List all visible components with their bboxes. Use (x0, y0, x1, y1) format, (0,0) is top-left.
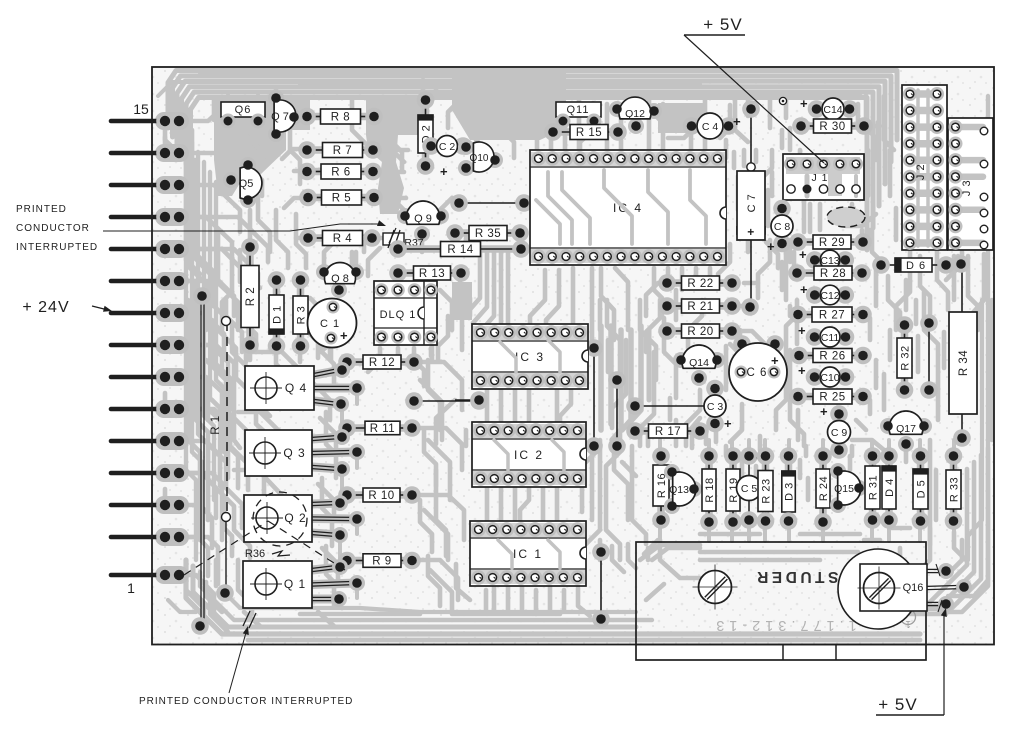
svg-text:C12: C12 (820, 290, 839, 302)
capacitor C12 (814, 291, 846, 299)
svg-text:C 6: C 6 (747, 367, 768, 379)
svg-text:DLQ 1: DLQ 1 (380, 309, 417, 321)
resistor R24 (819, 456, 827, 522)
wire link vertical B (616, 380, 618, 446)
diode D2 (422, 100, 430, 166)
capacitor C13 (814, 256, 846, 264)
svg-text:+: + (771, 353, 779, 368)
dense fill traces pass 3 (186, 132, 196, 560)
svg-text:IC 2: IC 2 (514, 448, 544, 462)
svg-text:C 1: C 1 (320, 318, 340, 330)
power transistor Q1 (312, 567, 340, 570)
svg-text:R 8: R 8 (331, 112, 350, 124)
svg-text:J 1: J 1 (811, 172, 828, 184)
svg-text:Q 7: Q 7 (271, 111, 289, 123)
svg-text:Q 9: Q 9 (414, 213, 432, 225)
interrupt marks below Q1 (243, 611, 250, 626)
svg-text:Q 4: Q 4 (285, 381, 307, 395)
svg-text:R 20: R 20 (687, 326, 713, 338)
resistor R7 (307, 146, 373, 154)
block screw (699, 571, 732, 604)
mid vertical bundle below IC4 left (466, 252, 480, 314)
svg-text:R 21: R 21 (687, 301, 713, 313)
copper patch in J1 (786, 158, 860, 196)
svg-text:Q11: Q11 (567, 104, 590, 116)
transistor Q12 (609, 101, 625, 117)
svg-text:R 6: R 6 (331, 167, 350, 179)
svg-text:R 4: R 4 (333, 233, 353, 245)
resistor R12 (347, 358, 414, 366)
svg-text:+: + (820, 404, 828, 419)
svg-text:R 15: R 15 (576, 127, 602, 139)
power transistor Q3 (312, 437, 342, 439)
svg-text:R 27: R 27 (819, 310, 845, 322)
wire link IC1 right (600, 552, 602, 619)
resistor R9 (347, 557, 412, 565)
resistor R31 (869, 456, 877, 520)
capacitor C9 (835, 414, 843, 451)
svg-text:15: 15 (133, 101, 149, 117)
svg-text:+: + (440, 164, 448, 179)
left mid fan diagonals (180, 249, 260, 288)
dashed construction lines (184, 521, 268, 575)
IC1 socket (470, 521, 586, 586)
svg-text:C11: C11 (821, 332, 840, 344)
svg-text:Q 2: Q 2 (284, 511, 306, 525)
dense fill traces pass 4 (738, 176, 748, 252)
svg-text:1: 1 (127, 580, 135, 596)
resistor R14 (398, 245, 521, 253)
traces around C6/Q14 (688, 300, 702, 348)
board outline (152, 67, 994, 645)
diode D3 (785, 456, 793, 521)
copper patch left of R8 (366, 100, 424, 214)
svg-text:D 1: D 1 (272, 305, 284, 324)
svg-text:R 11: R 11 (370, 423, 395, 435)
resistor R15 (553, 128, 618, 136)
copper patch top center (452, 68, 566, 140)
svg-text:R 10: R 10 (368, 490, 394, 502)
bottom row resistor stubs (658, 521, 662, 541)
dense fill traces pass 6: staircases (208, 300, 270, 416)
capacitor C7 (750, 109, 752, 166)
diode D1 (273, 280, 281, 346)
svg-text:IC 3: IC 3 (515, 350, 545, 364)
svg-text:+: + (767, 239, 775, 254)
capacitor C1 (308, 299, 357, 348)
svg-text:R 17: R 17 (655, 426, 681, 438)
svg-text:R 12: R 12 (369, 357, 395, 369)
connector J1 (783, 154, 864, 200)
wire link right (928, 323, 930, 390)
svg-text:PRINTED: PRINTED (16, 204, 67, 215)
resistor R18 (705, 456, 713, 522)
trimmer Q16 (838, 549, 918, 629)
D2/C2 area (421, 80, 426, 95)
svg-text:R 35: R 35 (475, 228, 501, 240)
resistor R20 (667, 327, 732, 335)
svg-text:Q14: Q14 (689, 357, 709, 369)
svg-text:C13: C13 (820, 255, 839, 267)
svg-text:C 8: C 8 (774, 221, 791, 233)
wire to C3 (635, 405, 704, 407)
resistor R22 (667, 279, 732, 287)
svg-text:Q15: Q15 (834, 483, 854, 495)
wire link near R12 (414, 400, 479, 402)
svg-text:+: + (799, 247, 807, 262)
svg-text:Q10: Q10 (470, 153, 489, 164)
svg-text:C 4: C 4 (702, 121, 719, 133)
svg-text:Q12: Q12 (625, 108, 645, 120)
copper patch near C4 (658, 103, 706, 133)
resistor R4 (308, 234, 372, 242)
transistor Q10 (458, 139, 474, 155)
diode D4 (885, 456, 893, 520)
svg-text:+: + (800, 282, 808, 297)
IC4 socket (530, 150, 726, 265)
resistor R21 (667, 302, 732, 310)
resistor R13 (398, 269, 461, 277)
transistor Q6 box (221, 102, 265, 117)
svg-text:Q5: Q5 (239, 178, 254, 190)
svg-text:CONDUCTOR: CONDUCTOR (16, 223, 90, 234)
traces upper-left fan (180, 108, 246, 121)
svg-text:R 29: R 29 (819, 237, 845, 249)
resistor R2 (246, 247, 254, 345)
copper patch near R13 (452, 282, 472, 320)
svg-text:+: + (747, 225, 755, 239)
tiny via ring near J1 (779, 97, 786, 104)
svg-text:R 25: R 25 (819, 392, 845, 404)
svg-text:C 2: C 2 (439, 141, 456, 153)
svg-text:Q17: Q17 (896, 423, 916, 435)
svg-text:J 3: J 3 (961, 180, 973, 196)
resistor R11 (347, 424, 412, 432)
resistor R32 (901, 325, 909, 390)
transistor Q11 box (556, 102, 601, 117)
verticals between IC4 and IC3 (530, 270, 545, 330)
transistor Q9 (397, 208, 413, 224)
svg-text:R 3: R 3 (296, 306, 308, 325)
resistor R10 (347, 491, 412, 499)
resistor R34 (961, 264, 963, 312)
svg-text:R 31: R 31 (868, 475, 880, 500)
diagonal weave left-center (246, 352, 330, 420)
top bundle feeders to IC4 (535, 100, 540, 158)
transistor Q5 (240, 157, 256, 173)
resistor R30 (801, 122, 864, 130)
diode D6 (881, 264, 895, 266)
resistor R26 (799, 352, 863, 360)
capacitor C6 (729, 343, 787, 401)
svg-text:+: + (733, 114, 741, 129)
svg-text:Q13: Q13 (669, 484, 689, 496)
svg-text:INTERRUPTED: INTERRUPTED (16, 242, 98, 253)
svg-text:R 26: R 26 (819, 351, 845, 363)
connector J2 (902, 85, 947, 250)
svg-text:R 2: R 2 (245, 287, 257, 306)
around R4..R8 right pads (374, 115, 396, 120)
svg-text:+ 5V: + 5V (878, 695, 917, 714)
power transistor Q2 (312, 503, 340, 504)
capacitor C2 (431, 142, 464, 150)
misc top-right feeders (788, 128, 793, 150)
resistor R8 (307, 113, 374, 121)
opto DLQ1 (374, 281, 437, 345)
svg-text:C 9: C 9 (831, 427, 848, 439)
long vertical jumper left (200, 296, 202, 625)
svg-text:Q 1: Q 1 (284, 577, 306, 591)
power transistor Q4 (314, 370, 342, 375)
svg-text:D 4: D 4 (884, 478, 896, 497)
svg-text:R 34: R 34 (958, 350, 970, 376)
lower-left nested corners + bottom bundle (186, 560, 920, 634)
R1 dashed outline (226, 322, 228, 516)
resistor R25 (798, 393, 863, 401)
svg-text:+: + (340, 328, 348, 343)
center tangle right of ICs (598, 300, 603, 330)
diode D5 (917, 456, 925, 521)
svg-text:IC 1: IC 1 (513, 547, 543, 561)
bottom right nested corners (940, 448, 988, 612)
svg-text:+: + (724, 416, 732, 431)
svg-text:1: 1 (905, 618, 911, 629)
svg-text:R 33: R 33 (949, 477, 961, 502)
capacitor C10 (814, 373, 846, 381)
svg-text:+ 24V: + 24V (22, 299, 69, 316)
traces between Q boxes and R9-R12 (320, 318, 338, 352)
svg-text:D 3: D 3 (784, 482, 796, 501)
svg-text:+ 5V: + 5V (703, 15, 742, 34)
capacitor C14 (816, 105, 850, 113)
resistor R23 (762, 456, 770, 521)
transistor Q8 (316, 264, 332, 280)
interrupt mark near R37 second (389, 228, 396, 243)
copper patch near Q6/Q7 (214, 98, 310, 196)
svg-text:PRINTED CONDUCTOR INTERRUPTE: PRINTED CONDUCTOR INTERRUPTED (139, 696, 353, 707)
dashed circle around Q2 (253, 492, 307, 546)
capacitor C8 (778, 208, 786, 244)
svg-text:R 28: R 28 (820, 268, 846, 280)
svg-text:C10: C10 (820, 372, 839, 384)
svg-text:R 14: R 14 (447, 244, 473, 256)
copper band center traces (598, 326, 604, 430)
dashed footprint ellipse (827, 207, 865, 227)
verticals IC1 down (492, 580, 497, 612)
svg-text:R 18: R 18 (704, 477, 716, 502)
resistor R6 (307, 168, 373, 176)
resistor R29 (798, 238, 863, 246)
svg-text:D 6: D 6 (906, 260, 926, 272)
svg-text:D 5: D 5 (916, 480, 928, 499)
svg-text:+: + (798, 323, 806, 338)
transistor Q13 (664, 464, 680, 480)
left connector rows (155, 112, 189, 130)
connector J3 (948, 118, 993, 250)
resistor R3 (297, 280, 305, 346)
svg-text:J 2: J 2 (915, 164, 927, 180)
resistor R33 (950, 456, 958, 521)
svg-text:C 3: C 3 (707, 401, 724, 413)
svg-text:+: + (800, 96, 808, 111)
right column verticals (876, 122, 881, 156)
resistor R16 (657, 456, 665, 520)
svg-text:R 30: R 30 (819, 121, 845, 133)
capacitor C5 (748, 456, 750, 520)
svg-text:R 9: R 9 (372, 556, 391, 568)
pads above C6 (733, 335, 751, 353)
svg-text:Q6: Q6 (235, 104, 252, 116)
svg-text:Q16: Q16 (903, 582, 924, 594)
verticals IC2-IC1 (485, 482, 490, 526)
top trace bundle (168, 71, 897, 141)
transistor Q17 (880, 418, 896, 434)
svg-text:R 5: R 5 (332, 193, 351, 205)
transistor Q15 (830, 463, 846, 479)
svg-text:Q 8: Q 8 (331, 273, 349, 285)
svg-text:R 13: R 13 (419, 268, 445, 280)
svg-text:STUDER: STUDER (754, 568, 839, 585)
svg-text:C14: C14 (823, 104, 842, 116)
resistor R5 (308, 194, 374, 202)
wire pad left of IC2 (455, 399, 479, 401)
svg-text:1.177.312-13: 1.177.312-13 (711, 617, 856, 633)
svg-text:R 1: R 1 (210, 415, 222, 434)
svg-text:R 23: R 23 (761, 478, 773, 503)
resistor R27 (798, 311, 863, 319)
wire link vertical A (593, 348, 595, 446)
resistor R17 (635, 427, 700, 435)
transistor Q7 (268, 90, 284, 106)
svg-text:R36: R36 (245, 548, 265, 560)
resistor R19 (729, 456, 737, 522)
resistor R35 (455, 229, 520, 237)
top-left entry corners (158, 82, 370, 96)
IC2 socket (472, 422, 586, 487)
svg-text:C 7: C 7 (746, 194, 758, 213)
svg-text:C 5: C 5 (741, 483, 758, 495)
svg-text:R 24: R 24 (818, 476, 830, 501)
capacitor C4 (691, 122, 729, 130)
IC3 socket (472, 324, 588, 389)
dense fill traces pass 5 (420, 300, 432, 360)
resistor R37 interrupt symbol (383, 233, 404, 245)
svg-text:R 32: R 32 (900, 345, 912, 370)
wire link above R35 (459, 202, 524, 204)
dense fill traces pass 2 (212, 98, 217, 120)
svg-text:R 7: R 7 (333, 145, 352, 157)
svg-text:R 22: R 22 (687, 278, 713, 290)
resistor R28 (797, 269, 862, 277)
svg-text:Q 3: Q 3 (283, 446, 305, 460)
verticals IC3-IC2 (485, 384, 490, 428)
capacitor C3 (711, 388, 719, 424)
capacitor C11 (814, 333, 846, 341)
svg-text:+: + (798, 363, 806, 378)
bottom connector block (636, 542, 926, 660)
transistor Q14 (673, 352, 689, 368)
